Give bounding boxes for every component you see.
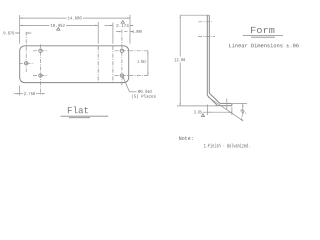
hole H5 bottom-right: [120, 74, 123, 77]
tolerance note: [229, 43, 299, 47]
flag triangle above 2.174: [121, 21, 124, 24]
hole H1 top-left: [39, 49, 42, 52]
hole H3 left-middle: [25, 62, 28, 65]
hole H2 bottom-left: [39, 74, 42, 77]
extension line bend2 above part: [112, 23, 114, 44]
form view foot top surface: [220, 102, 231, 104]
centerline horizontal through H1: [33, 50, 48, 52]
extension line left edge: [19, 15, 21, 44]
centerline vertical hole column x=40.5: [40, 44, 42, 94]
dimension 3.563: [147, 51, 149, 76]
centerline vertical hole column x=121.9: [121, 30, 123, 87]
title Flat underline long: [61, 115, 109, 117]
title Form: [251, 27, 274, 33]
form view web inner face: [208, 15, 210, 93]
title Form underline short: [251, 36, 275, 38]
dimension 12.00: [179, 15, 181, 56]
centerline horizontal through H2: [33, 75, 48, 77]
title Form underline long: [243, 35, 283, 37]
title Flat underline short: [69, 117, 90, 119]
centerline vertical hole column x=26.2: [25, 32, 27, 72]
angular dimension 45 deg arrow to top extension: [242, 104, 244, 109]
flat part outline (rounded rectangle): [20, 46, 129, 83]
extension line right edge: [129, 15, 131, 44]
dimension 1.000: [116, 31, 119, 33]
dimension 2.750: [14, 93, 23, 95]
hole note text diameter: [138, 90, 152, 93]
form view foot bottom surface: [218, 105, 232, 107]
extension foot end below for 3.85: [231, 107, 233, 115]
hole note leader: [123, 77, 130, 92]
title Flat: [68, 106, 88, 113]
note line 1: [204, 143, 249, 147]
angular dimension arc: [242, 108, 243, 117]
note heading: [179, 136, 192, 140]
extension web face below for 3.85: [207, 105, 209, 116]
flag triangle below 10.452: [57, 28, 60, 31]
bend line 2 (flat view): [112, 46, 114, 82]
dimension 2.174: [105, 25, 113, 27]
foot top plane extension for 45 deg dim: [232, 102, 247, 104]
angle text 45 deg (rotated): [240, 108, 247, 115]
dimension 14.600: [20, 17, 67, 19]
form view hole centerline lower: [198, 36, 215, 38]
centerline horizontal through H3: [19, 62, 34, 64]
form view hole centerline upper: [198, 21, 213, 23]
hole H4 top-right: [120, 49, 123, 52]
dimension 0.875: [15, 32, 20, 34]
centerline horizontal through H5 and extension for 3.563: [115, 75, 149, 77]
dimension 3.85: [203, 111, 232, 113]
extension line bend1 above part: [97, 22, 99, 44]
form view web outer face: [206, 15, 208, 95]
extension line below part left edge for 2.750: [19, 86, 21, 96]
dimension 10.452: [20, 24, 50, 26]
form view slope outer surface: [207, 95, 217, 105]
form view top edge and 12.00 extension: [180, 14, 209, 16]
form view foot hole centerline: [226, 99, 228, 111]
bottom plane extension line: [177, 105, 218, 107]
form view foot end cap: [230, 103, 233, 105]
form view slope inner surface: [209, 93, 220, 103]
bend line 1 (flat view): [97, 46, 99, 82]
centerline horizontal through H4 and extension for 3.563: [115, 50, 149, 52]
flag triangle below 3.85: [201, 114, 204, 116]
angular dimension 45 deg diagonal: [208, 97, 243, 121]
hole note text places: [132, 94, 156, 98]
